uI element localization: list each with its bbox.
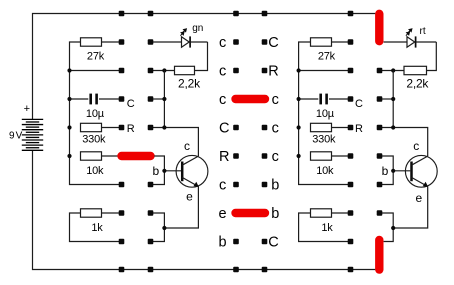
svg-text:e: e [219,206,227,222]
wire: LED rt cathode down to 2.2k right [424,42,436,71]
svg-text:c: c [219,64,226,80]
capacitor 10u left [70,98,89,100]
node: right feed junction row3 [391,97,395,101]
svg-text:c: c [219,35,226,51]
wire: right emitter bracket [380,213,394,242]
svg-text:e: e [415,191,422,205]
svg-text:10µ: 10µ [86,108,105,120]
resistor 1k right + loop [299,213,351,242]
resistor 1k left + loop [70,213,122,242]
wire: right collector feed row4 [380,128,428,157]
wire: collector feed row4 [151,128,199,157]
wire: LED cathode down to 2.2k [195,42,208,71]
wire: right feed vertical upper [392,71,394,128]
svg-text:9: 9 [9,131,15,142]
svg-text:c: c [272,121,279,137]
node: right feed junction row4 [391,125,395,129]
jumper red middle row7 [236,209,266,217]
wire: right cap row stub [380,98,394,100]
node: feed junction row4 [162,125,166,129]
resistor 10k right [311,152,332,160]
LED gn left [151,41,182,43]
svg-text:330k: 330k [82,133,106,145]
svg-text:b: b [152,164,159,178]
svg-text:c: c [219,178,226,194]
wire: feed vertical upper [163,71,165,128]
svg-text:e: e [186,189,193,203]
node: right branch 10k junction [297,154,301,158]
wire: left branch row2 stub [70,70,122,72]
wire: 27k to hole [102,41,122,43]
node: right branch cap junction [297,97,301,101]
svg-text:c: c [413,139,419,153]
wire: top supply rail [33,14,376,120]
svg-text:rt: rt [420,26,426,37]
node: right branch 330k junction [297,125,301,129]
svg-text:10µ: 10µ [316,108,335,120]
svg-text:C: C [219,121,229,137]
node: left branch row2 junction [67,68,71,72]
wire: right base tee [393,170,410,172]
wire: right branch row2 stub [299,70,351,72]
svg-text:c: c [272,149,279,165]
wire: base bracket left [151,156,165,185]
svg-text:R: R [219,149,229,165]
resistor 27k left [81,38,102,46]
svg-text:c: c [184,139,190,153]
node: left branch 10k junction [67,154,71,158]
jumper red middle row3 [236,95,266,103]
svg-text:V: V [16,131,23,142]
node: left branch 330k junction [67,125,71,129]
node: feed junction row2 [162,68,166,72]
resistor 330k left [81,123,102,131]
wire: emitter down-left [164,187,198,229]
svg-text:gn: gn [192,23,203,34]
svg-text:1k: 1k [321,222,333,234]
jumper red left (10k row) [122,152,151,160]
resistor 330k right [311,123,332,131]
holes: plugboard sockets [119,11,383,273]
svg-text:1k: 1k [91,222,103,234]
wire: right branch vertical [299,42,351,185]
svg-text:27k: 27k [318,51,336,63]
svg-text:b: b [382,164,389,178]
wire: cap row stub [151,98,165,100]
svg-text:b: b [271,178,279,194]
svg-text:10k: 10k [316,165,334,177]
node: right branch row2 junction [297,68,301,72]
wire: bottom supply rail [33,151,376,270]
node: base junction [162,169,166,173]
wire: right base bracket [380,156,394,185]
svg-text:27k: 27k [87,51,105,63]
battery 9V [9,103,43,151]
transistor Q1 [176,139,208,203]
jumper red right bottom (emitter row to supply) [375,240,383,270]
svg-text:c: c [219,92,226,108]
node: left branch cap junction [67,97,71,101]
svg-text:10k: 10k [86,165,104,177]
svg-text:R: R [355,123,363,135]
resistor 2.2k left [175,66,195,74]
svg-text:2,2k: 2,2k [406,76,429,90]
svg-text:+: + [24,103,30,115]
jumper red right top (supply to LED row) [375,14,383,41]
resistor 27k right [311,38,332,46]
svg-text:b: b [219,235,227,251]
svg-text:R: R [268,64,278,80]
LED rt right [384,41,407,43]
node: right base junction [391,169,395,173]
wire: emitter bracket left [151,213,165,242]
capacitor 10u right [299,98,319,100]
svg-text:2,2k: 2,2k [178,76,201,90]
svg-text:C: C [127,98,135,110]
wire: left branch vertical [70,42,122,185]
node: right feed junction row2 [391,68,395,72]
svg-text:C: C [268,35,278,51]
wire: right emitter down-left [393,187,428,229]
node: emitter junction [162,226,166,230]
svg-text:b: b [271,206,279,222]
node: feed junction row3 [162,97,166,101]
svg-text:C: C [268,235,278,251]
svg-text:c: c [272,92,279,108]
resistor 10k left [81,152,102,160]
svg-text:R: R [127,123,135,135]
resistor 2.2k right [404,66,427,74]
node: right emitter junction [391,226,395,230]
wire: base tee [164,170,181,172]
svg-text:330k: 330k [312,133,336,145]
transistor Q2 [405,139,437,205]
svg-text:C: C [355,98,363,110]
